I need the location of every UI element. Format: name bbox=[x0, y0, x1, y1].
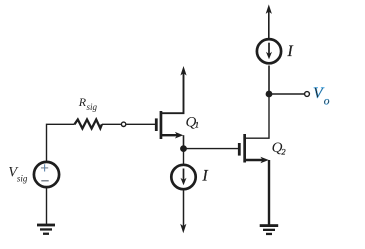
transistor Q1 channel bar bbox=[160, 111, 163, 139]
wire Q1 source with arrow bbox=[162, 134, 178, 136]
resistor Rsig zigzag bbox=[75, 120, 102, 129]
wire I2 up to positive supply arrow bbox=[268, 11, 270, 39]
wire Q1 source down to node bbox=[183, 135, 185, 150]
ground under Vsig bbox=[37, 224, 55, 235]
svg-text:I: I bbox=[202, 168, 209, 185]
wire node up to current source I2 bbox=[268, 66, 270, 95]
arrow up positive supply bbox=[266, 4, 272, 14]
transistor Q2 gate bar bbox=[238, 143, 241, 156]
svg-text:I: I bbox=[287, 43, 294, 60]
svg-text:sig: sig bbox=[87, 102, 98, 112]
wire Q1 drain up bbox=[161, 72, 184, 113]
node input open circle bbox=[121, 122, 125, 126]
wire Q2 drain up to output node bbox=[245, 94, 269, 138]
wire input horizontal from Vsig corner to resistor bbox=[47, 124, 75, 161]
svg-text:2: 2 bbox=[281, 146, 286, 156]
junction node dot bbox=[180, 145, 187, 152]
wire node down to current source I1 bbox=[183, 149, 185, 165]
wire Q2 source down to ground bbox=[268, 160, 270, 225]
transistor Q2 channel bar bbox=[243, 134, 246, 163]
wire Vsig down to ground bbox=[46, 187, 48, 224]
ground under Q2 bbox=[260, 224, 279, 235]
node output dot bbox=[266, 91, 273, 98]
wire node to Q1 gate bbox=[126, 123, 155, 125]
current source I2 arrow bbox=[268, 43, 270, 55]
arrow up supply at Q1 drain bbox=[180, 66, 186, 76]
plus sign in Vsig bbox=[41, 164, 48, 171]
svg-text:o: o bbox=[324, 96, 330, 108]
wire Q2 source with arrow bbox=[246, 159, 263, 161]
svg-text:R: R bbox=[78, 95, 87, 109]
svg-text:1: 1 bbox=[195, 119, 199, 129]
arrow Q2 source bbox=[260, 157, 268, 164]
current source I2 circle bbox=[257, 39, 281, 63]
wire resistor to input node circle bbox=[102, 123, 121, 125]
minus sign in Vsig bbox=[41, 180, 48, 182]
wire I1 to negative supply arrow bbox=[183, 190, 185, 226]
voltage source Vsig circle bbox=[34, 162, 59, 187]
arrow down negative supply bbox=[180, 224, 186, 234]
wire output node to Vo terminal bbox=[269, 93, 304, 95]
terminal Vo open circle bbox=[305, 92, 310, 97]
current source I1 circle bbox=[171, 165, 195, 189]
transistor Q1 gate bar bbox=[155, 118, 158, 131]
svg-text:sig: sig bbox=[17, 174, 28, 184]
wire node to Q2 gate bbox=[184, 148, 239, 150]
arrow Q1 source bbox=[175, 132, 183, 139]
current source I1 arrow bbox=[183, 169, 185, 182]
